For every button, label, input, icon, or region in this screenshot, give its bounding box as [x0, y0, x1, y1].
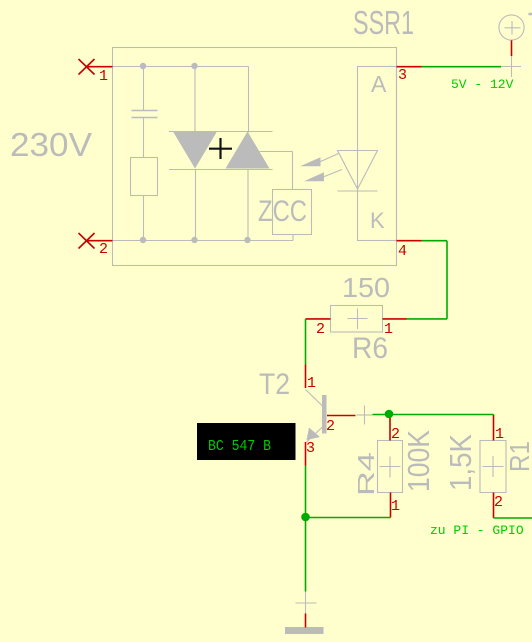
svg-text:T2: T2 [259, 368, 290, 401]
svg-text:1: 1 [99, 68, 108, 85]
svg-text:R4: R4 [353, 452, 379, 496]
svg-text:1: 1 [384, 321, 393, 338]
svg-text:2: 2 [316, 321, 325, 338]
svg-text:4: 4 [398, 243, 407, 260]
svg-text:100K: 100K [401, 430, 436, 492]
svg-text:K: K [370, 208, 385, 233]
svg-text:2: 2 [326, 418, 335, 435]
svg-text:230V: 230V [10, 126, 92, 163]
svg-text:ZCC: ZCC [258, 195, 307, 228]
svg-text:zu PI - GPIO: zu PI - GPIO [430, 523, 524, 538]
svg-text:BC 547 B: BC 547 B [208, 438, 271, 455]
svg-text:5V - 12V: 5V - 12V [451, 77, 514, 92]
svg-text:2: 2 [494, 494, 503, 511]
svg-text:1: 1 [495, 426, 504, 443]
svg-text:3: 3 [306, 440, 315, 457]
svg-text:A: A [371, 71, 387, 97]
svg-text:2: 2 [391, 426, 400, 443]
svg-text:3: 3 [398, 67, 407, 84]
svg-text:1: 1 [391, 498, 400, 515]
svg-text:R6: R6 [352, 332, 388, 365]
svg-text:1,5K: 1,5K [443, 434, 478, 491]
svg-text:R1: R1 [504, 441, 532, 472]
svg-text:150: 150 [342, 272, 390, 303]
svg-text:SSR1: SSR1 [353, 4, 414, 41]
svg-text:1: 1 [307, 375, 316, 392]
svg-text:2: 2 [99, 241, 108, 258]
